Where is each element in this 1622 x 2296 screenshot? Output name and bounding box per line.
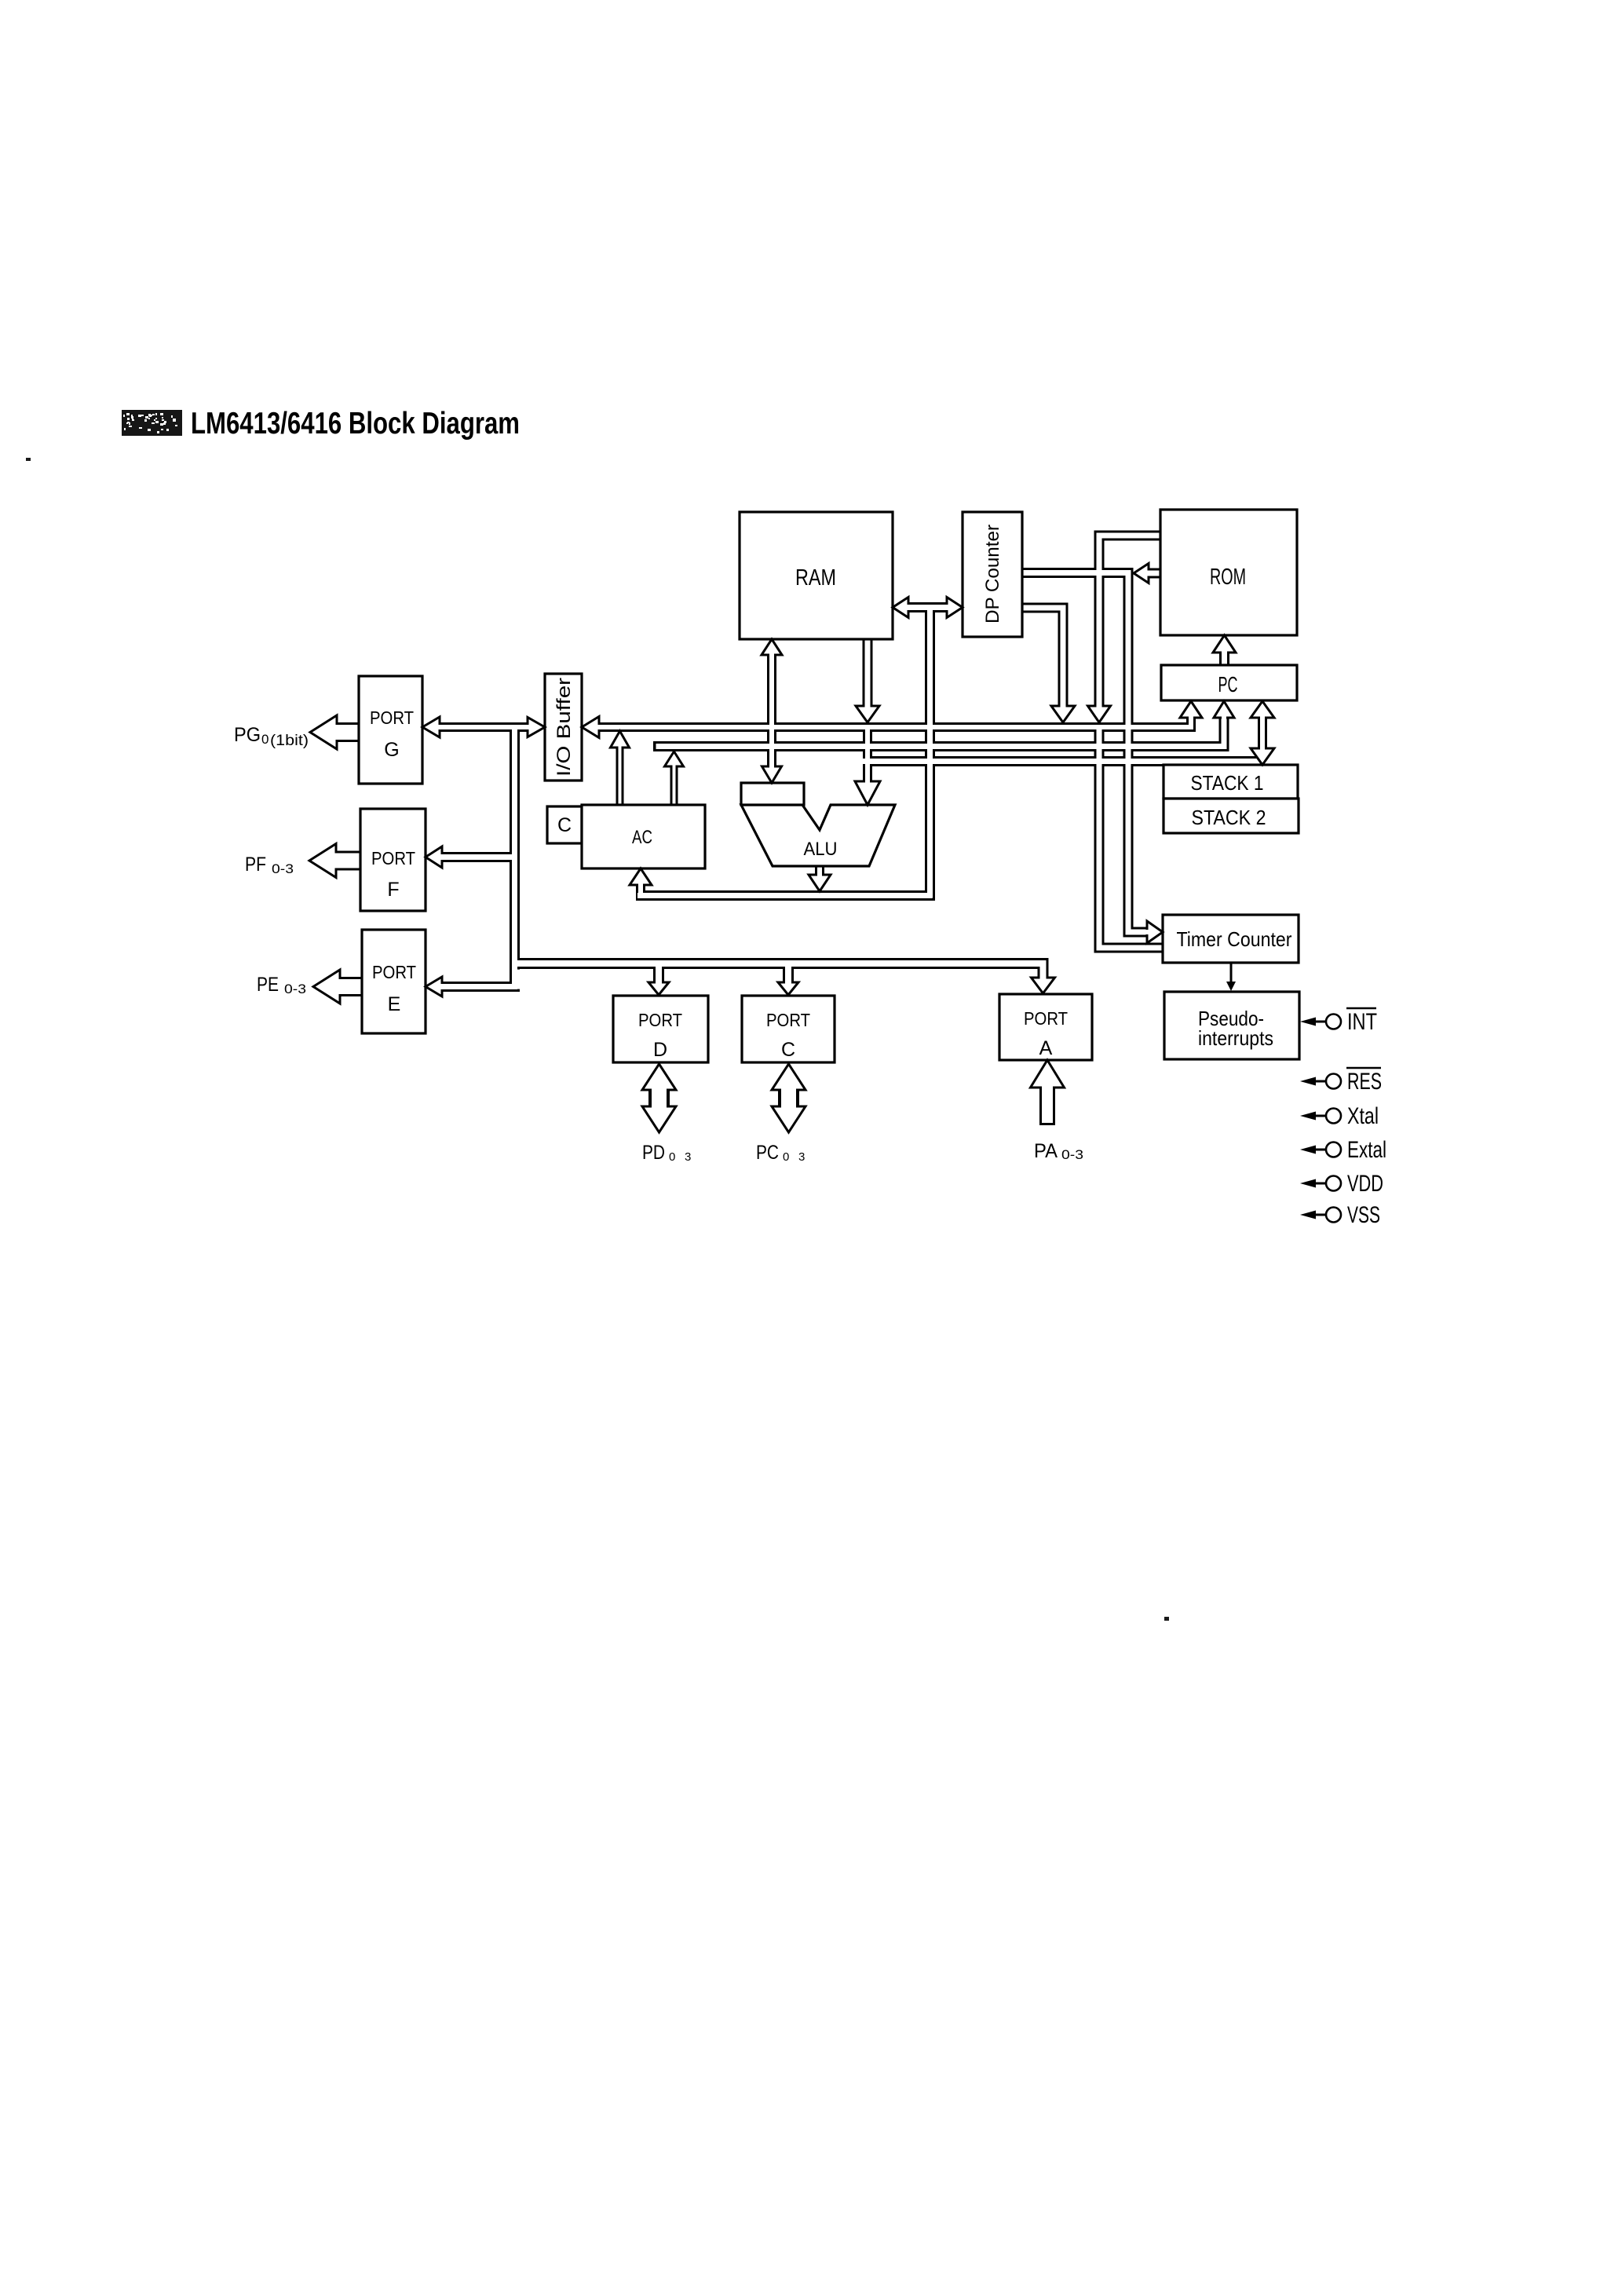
arrowhead PA0-3 up into PORT A (1031, 1060, 1065, 1088)
wire PC to ROM wire outline (1219, 653, 1229, 667)
wire wire to timer counter lower input outline (1099, 729, 1163, 948)
pin Extal (1300, 1137, 1386, 1163)
wire main bus 3 (ALU bus to stack riser) interior (863, 759, 1262, 764)
wire PC to ROM wire interior (1222, 652, 1227, 668)
arrowhead stack riser into PC (1251, 701, 1274, 718)
wire AC bottom input stub interior (638, 883, 643, 896)
wire PORT E feed outline (441, 982, 520, 992)
svg-text:PORT: PORT (638, 1010, 682, 1030)
wire PG0 arrow shaft interior (337, 725, 361, 740)
svg-text:PA: PA (1034, 1140, 1058, 1162)
svg-text:interrupts: interrupts (1198, 1026, 1273, 1050)
arrowhead PG0 output (310, 715, 337, 749)
wire RAM to ALU-register wire outline (767, 655, 776, 766)
arrowhead ROM wire into bus1 (1088, 706, 1111, 722)
wire AC to bus2 wire interior (673, 765, 676, 808)
arrowhead PD0-3 down (642, 1106, 676, 1132)
wire PC0-3 arrow shaft outline (778, 1088, 799, 1108)
wire RAM-DP counter link interior (907, 605, 948, 610)
wire wire to timer counter lower input interior (1099, 728, 1164, 948)
svg-text:INT: INT (1347, 1009, 1377, 1035)
wire AC bottom input stub outline (636, 885, 645, 895)
wire ALU output stub interior (817, 866, 822, 875)
wire PF0-3 arrow shaft interior (336, 854, 363, 868)
arrowhead PC0-3 up (772, 1064, 806, 1090)
svg-text:RAM: RAM (795, 565, 836, 590)
block ROM (1160, 510, 1297, 635)
wire main bus 1 (data bus to I/O buffer / PC) interior (598, 717, 1191, 727)
arrowhead bus2 riser into PC (1214, 701, 1234, 718)
wire PA0-3 arrow shaft outline (1039, 1088, 1055, 1125)
arrowhead PC output into ROM (1213, 635, 1236, 653)
wire ROM upper wire to bus1 outline (1099, 536, 1160, 706)
arrowhead link into PORT G (422, 717, 440, 737)
wire main bus 2 (AC output bus to PC) interior (656, 717, 1225, 747)
svg-text:A: A (1039, 1037, 1053, 1059)
svg-text:PC: PC (1218, 672, 1238, 696)
block PORT D (613, 996, 708, 1062)
pin VSS (1300, 1202, 1380, 1228)
svg-text:0: 0 (261, 732, 269, 747)
wire ROM output arrow shaft outline (1149, 569, 1160, 579)
svg-text:(1bit): (1bit) (270, 733, 309, 749)
svg-text:F: F (387, 879, 399, 901)
wire PORT F feed interior (442, 854, 517, 860)
label PF0-3 (245, 854, 294, 876)
wire main bus 3 (ALU bus to stack riser) outline (863, 756, 1265, 766)
label PA0-3 (1034, 1140, 1083, 1162)
arrowhead PD0-3 up (642, 1064, 676, 1090)
wire DP upper output to timer outline (1022, 573, 1148, 933)
wire port trunk (vertical from PORT G bus) interior (512, 725, 517, 987)
svg-text:C: C (557, 814, 572, 836)
arrowhead link into I/O buffer left (528, 718, 545, 737)
arrowhead ports bus into PORT A (1032, 978, 1055, 993)
pin INT (1300, 1008, 1377, 1035)
svg-text:D: D (653, 1039, 667, 1061)
block ALU input register (741, 783, 804, 805)
wire RAM to bus1 wire interior (865, 636, 871, 706)
scan speck 1 (26, 458, 31, 461)
wire bus to ALU right-input wire interior (865, 725, 870, 781)
svg-text:PORT: PORT (766, 1010, 810, 1030)
wire ports bus (to ports D/C/A) interior (517, 963, 1043, 978)
svg-text:3: 3 (798, 1150, 805, 1164)
block ALU (741, 805, 895, 866)
svg-text:ALU: ALU (804, 839, 838, 860)
arrowhead feed into PORT F (426, 846, 442, 868)
arrowhead bus1 riser into PC (1180, 701, 1202, 718)
svg-text:E: E (388, 993, 401, 1015)
wire RAM-DP counter link outline (908, 602, 947, 612)
svg-text:0: 0 (669, 1150, 675, 1164)
wire PD0-3 arrow shaft outline (648, 1088, 670, 1108)
block I/O Buffer (545, 674, 582, 781)
svg-text:VSS: VSS (1347, 1202, 1380, 1228)
block PORT G (359, 676, 422, 784)
svg-text:VDD: VDD (1347, 1171, 1383, 1197)
wire PC0-3 arrow shaft interior (781, 1087, 796, 1110)
arrowhead stack riser into STACK 1 (1251, 748, 1274, 765)
pin VDD (1300, 1171, 1383, 1197)
wire PORT F feed outline (442, 852, 520, 862)
scan speck 2 (1164, 1617, 1169, 1621)
svg-text:0-3: 0-3 (272, 861, 294, 876)
wire PD0-3 arrow shaft interior (652, 1087, 667, 1110)
svg-text:Extal: Extal (1347, 1137, 1386, 1163)
wire PORT C stub outline (783, 969, 794, 983)
block Pseudo-interrupts (1164, 992, 1299, 1059)
wire PF0-3 arrow shaft outline (336, 851, 360, 871)
pin Xtal (1300, 1103, 1379, 1129)
wire feedback bus to AC interior (637, 893, 933, 898)
block PC (1161, 665, 1297, 700)
arrowhead feed into PORT E (426, 977, 442, 996)
wire ROM upper wire to bus1 interior (1099, 536, 1162, 706)
arrowhead RAM output into bus1 (856, 706, 879, 722)
arrowhead PC0-3 down (772, 1106, 806, 1132)
arrowhead ports bus into PORT D (648, 982, 669, 995)
wire AC to bus1 wire outline (616, 748, 624, 807)
svg-text:PE: PE (257, 974, 279, 996)
wire PORT G to I/O buffer link outline (440, 722, 528, 732)
arrowhead PE0-3 output (313, 970, 340, 1004)
wire PORT E feed interior (441, 984, 517, 989)
wire bus to ALU right-input wire outline (863, 725, 872, 782)
svg-text:PORT: PORT (1024, 1008, 1068, 1029)
block PORT F (360, 809, 426, 911)
wire AC to bus1 wire interior (619, 746, 622, 808)
wire RAM to bus1 wire outline (863, 638, 873, 706)
wire timer to pseudo-interrupts (1230, 963, 1233, 983)
wire ROM output arrow shaft interior (1149, 571, 1162, 576)
svg-text:PORT: PORT (372, 962, 416, 982)
block C (carry flag) (547, 806, 582, 843)
svg-text:AC: AC (632, 827, 652, 848)
arrowhead into RAM (from DP link) (893, 598, 908, 618)
wire RAM-DP riser (to feedback bus) outline (925, 608, 935, 901)
block Timer Counter (1163, 915, 1299, 963)
svg-text:ROM: ROM (1210, 565, 1246, 590)
block STACK 2 (1164, 799, 1299, 833)
svg-text:RES: RES (1347, 1069, 1382, 1095)
arrowhead ROM output (left) (1134, 564, 1149, 583)
wire RAM to ALU-register wire interior (769, 654, 774, 766)
block RAM (740, 512, 893, 639)
svg-text:STACK 1: STACK 1 (1191, 771, 1264, 795)
arrowhead up into RAM bottom (762, 639, 782, 655)
arrowhead ALU output into feedback bus (809, 875, 831, 891)
arrowhead into Timer Counter (1147, 921, 1163, 943)
wire PC to STACK riser interior (1260, 716, 1265, 749)
arrowhead down into ALU right input (855, 781, 880, 805)
wire PC to STACK riser outline (1258, 718, 1267, 748)
wire PORT C stub interior (785, 966, 791, 983)
svg-text:I/O Buffer: I/O Buffer (553, 678, 575, 777)
wire PE0-3 arrow shaft interior (340, 979, 364, 994)
wire port trunk (vertical from PORT G bus) outline (510, 723, 520, 991)
wire PE0-3 arrow shaft outline (340, 977, 362, 996)
arrowhead DP lower output into bus1 (1051, 706, 1075, 722)
svg-text:Timer Counter: Timer Counter (1177, 927, 1292, 951)
label PG0 (1bit) (234, 724, 309, 749)
wire PORT D stub interior (656, 966, 662, 983)
svg-text:0: 0 (783, 1150, 789, 1164)
arrowhead ports bus into PORT C (778, 982, 798, 995)
svg-text:0-3: 0-3 (1061, 1147, 1083, 1162)
block STACK 1 (1164, 765, 1298, 799)
label PE0-3 (257, 974, 306, 996)
label PC0-3 (756, 1142, 805, 1164)
wire DP upper output to timer interior (1021, 573, 1148, 933)
wire RAM-DP riser (to feedback bus) interior (927, 609, 933, 898)
svg-text:PORT: PORT (371, 848, 415, 868)
arrowhead AC output into bus2 (665, 751, 684, 766)
svg-text:PORT: PORT (370, 707, 414, 728)
wire PORT G to I/O buffer link interior (439, 725, 528, 729)
wire AC to bus2 wire outline (670, 766, 678, 807)
svg-text:PG: PG (234, 724, 261, 746)
svg-text:PC: PC (756, 1142, 779, 1164)
wire ports bus (to ports D/C/A) outline (515, 963, 1043, 979)
wire DP lower output to bus1 outline (1022, 608, 1063, 706)
block AC (accumulator) (582, 805, 705, 868)
block DP Counter (963, 512, 1022, 637)
wire feedback bus to AC outline (636, 890, 935, 901)
svg-text:DP Counter: DP Counter (982, 525, 1003, 623)
svg-text:STACK 2: STACK 2 (1192, 806, 1266, 829)
wire DP lower output to bus1 interior (1021, 608, 1063, 706)
svg-text:Xtal: Xtal (1347, 1103, 1379, 1129)
arrowhead feedback into AC bottom (630, 868, 652, 885)
svg-text:PF: PF (245, 854, 266, 876)
arrowhead AC output into bus1 (611, 731, 630, 748)
svg-text:C: C (781, 1039, 795, 1061)
block PORT C (742, 996, 835, 1062)
svg-text:3: 3 (685, 1150, 691, 1164)
svg-text:G: G (384, 739, 399, 761)
pin RES (1300, 1068, 1382, 1095)
label PD0-3 (642, 1142, 691, 1164)
arrowhead bus1 into I/O buffer (582, 717, 599, 738)
arrowhead down into ALU register (762, 766, 782, 783)
block PORT E (362, 930, 426, 1033)
svg-text:0-3: 0-3 (284, 982, 306, 996)
wire main bus 2 (AC output bus to PC) outline (653, 718, 1224, 747)
arrowhead PF0-3 output (309, 844, 336, 878)
title marker block (122, 410, 182, 436)
svg-text:LM6413/6416 Block Diagram: LM6413/6416 Block Diagram (191, 407, 520, 441)
wire ALU output stub outline (815, 867, 824, 875)
arrowhead into DP Counter (from RAM link) (947, 598, 963, 618)
wire PORT D stub outline (653, 969, 664, 983)
wire PA0-3 arrow shaft interior (1042, 1086, 1053, 1123)
wire main bus 1 (data bus to I/O buffer / PC) outline (599, 718, 1191, 727)
junction patch trunk/ports-bus corner (512, 970, 520, 989)
wire PG0 arrow shaft outline (337, 722, 359, 742)
svg-text:PD: PD (642, 1142, 665, 1164)
block PORT A (999, 994, 1092, 1060)
